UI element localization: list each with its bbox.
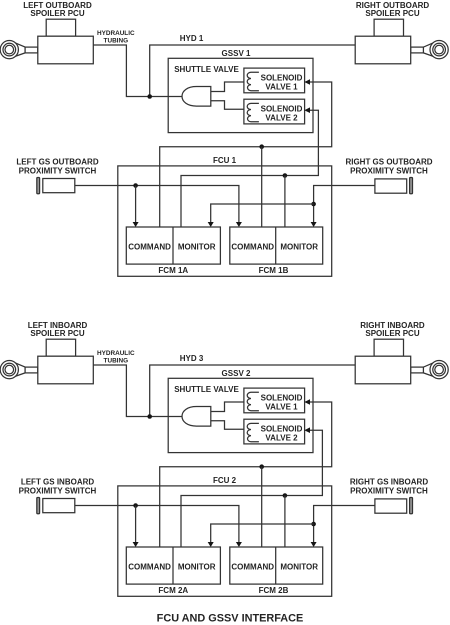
svg-text:VALVE 2: VALVE 2 <box>265 434 298 443</box>
arrow into FCM 2B monitor <box>311 542 317 547</box>
FCM 2A box <box>126 547 220 584</box>
PCU body <box>355 356 411 384</box>
arrow into solenoid valve 2 <box>304 107 310 113</box>
wire: HYD 1 supply line to right PCU with drop to shuttle valve <box>150 45 356 97</box>
wire: junction down to FCM 1B command <box>261 147 263 227</box>
node: solenoid 2 net junction <box>283 173 288 178</box>
node: junction dot hydraulic tubing / HYD 3 <box>147 414 152 419</box>
svg-text:SOLENOID: SOLENOID <box>261 74 303 83</box>
PCU mount block <box>46 19 75 36</box>
arrow into FCM 2A monitor <box>208 542 214 547</box>
node: left prox net junction <box>133 183 138 188</box>
left GS inboard proximity switch body <box>43 499 75 513</box>
svg-text:VALVE 2: VALVE 2 <box>265 114 298 123</box>
wire: junction down to FCM 1B monitor <box>284 176 286 228</box>
arrow into FCM 1B monitor <box>311 222 317 227</box>
rod-end eye outer <box>0 361 18 379</box>
right inboard PCU actuator <box>355 339 448 384</box>
svg-text:PROXIMITY SWITCH: PROXIMITY SWITCH <box>350 166 428 175</box>
arrow into solenoid valve 2 (GSSV 2) <box>304 427 310 433</box>
svg-text:MONITOR: MONITOR <box>178 242 216 251</box>
svg-text:GSSV 1: GSSV 1 <box>222 49 251 58</box>
wire: HYD 3 supply line to right inboard PCU with drop to shuttle valve <box>150 365 356 417</box>
rod-end bearing ring <box>433 363 446 376</box>
node: solenoid 1 net junction <box>259 144 264 149</box>
arrow into FCM 1B command <box>236 222 242 227</box>
wire: hydraulic tubing from left inboard PCU <box>93 365 182 417</box>
svg-text:FCM 2A: FCM 2A <box>158 586 188 595</box>
rod-end eye outer <box>0 41 18 59</box>
left GS outboard proximity switch target <box>37 178 40 194</box>
svg-text:COMMAND: COMMAND <box>231 242 274 251</box>
svg-text:MONITOR: MONITOR <box>178 562 216 571</box>
right outboard PCU actuator <box>355 19 448 64</box>
svg-text:SPOILER PCU: SPOILER PCU <box>30 9 84 18</box>
solenoid valve 1 box <box>244 68 305 93</box>
solenoid valve 1 box (GSSV 2) <box>244 388 305 413</box>
svg-text:SHUTTLE VALVE: SHUTTLE VALVE <box>174 385 239 394</box>
coil symbol solenoid valve 2 <box>247 103 259 121</box>
shuttle valve symbol <box>182 87 211 107</box>
svg-text:VALVE 1: VALVE 1 <box>265 83 298 92</box>
wire: hydraulic tubing from left PCU <box>93 45 182 97</box>
svg-text:SOLENOID: SOLENOID <box>261 394 303 403</box>
wire: shuttle valve output to solenoid valve 1 (GSSV 2) <box>211 402 244 412</box>
coil symbol solenoid valve 2 (GSSV 2) <box>247 423 259 441</box>
node: solenoid 2 net junction (FCU 2) <box>283 493 288 498</box>
svg-text:SOLENOID: SOLENOID <box>261 105 303 114</box>
GSSV 1 enclosure box <box>168 58 313 132</box>
PCU body <box>38 36 94 64</box>
svg-text:SPOILER PCU: SPOILER PCU <box>365 329 419 338</box>
piston rod <box>25 367 38 373</box>
FCU 1 enclosure box <box>118 166 332 276</box>
shuttle valve symbol (GSSV 2) <box>182 407 211 427</box>
wire: junction across to FCM 1A monitor <box>211 204 314 222</box>
PCU mount block <box>46 339 75 356</box>
FCM 1A channel divider <box>172 227 174 264</box>
svg-text:SPOILER PCU: SPOILER PCU <box>365 9 419 18</box>
wire: shuttle valve output to solenoid valve 1 <box>211 82 244 92</box>
svg-text:COMMAND: COMMAND <box>128 242 171 251</box>
PCU body <box>38 356 94 384</box>
svg-text:FCU AND GSSV INTERFACE: FCU AND GSSV INTERFACE <box>157 613 304 625</box>
svg-text:MONITOR: MONITOR <box>280 562 318 571</box>
svg-text:HYD 3: HYD 3 <box>180 354 204 363</box>
svg-text:VALVE 1: VALVE 1 <box>265 403 298 412</box>
solenoid valve 2 box (GSSV 2) <box>244 419 305 444</box>
svg-text:HYDRAULIC: HYDRAULIC <box>97 30 135 37</box>
svg-text:FCU 1: FCU 1 <box>213 156 237 165</box>
node: left prox net junction (FCU 2) <box>133 503 138 508</box>
FCM 2A channel divider <box>172 547 174 584</box>
FCM 2B channel divider <box>275 547 277 584</box>
svg-text:TUBING: TUBING <box>104 37 129 44</box>
arrow into FCM 1A command <box>133 222 139 227</box>
left outboard PCU actuator <box>0 19 93 64</box>
coil symbol solenoid valve 1 (GSSV 2) <box>247 392 259 410</box>
PCU mount block <box>374 19 403 36</box>
rod-end eye outer <box>430 41 448 59</box>
piston rod <box>411 47 424 53</box>
GSSV 2 enclosure box <box>168 378 313 452</box>
svg-text:FCM 1B: FCM 1B <box>259 266 289 275</box>
svg-text:SPOILER PCU: SPOILER PCU <box>30 329 84 338</box>
right GS outboard proximity switch target <box>410 178 413 194</box>
svg-text:COMMAND: COMMAND <box>128 562 171 571</box>
svg-text:COMMAND: COMMAND <box>231 562 274 571</box>
piston rod <box>411 367 424 373</box>
svg-text:SOLENOID: SOLENOID <box>261 425 303 434</box>
rod-end bearing ring <box>3 363 16 376</box>
wire: right inboard proximity switch to FCM monitors <box>314 506 375 543</box>
PCU body <box>355 36 411 64</box>
right GS inboard proximity switch target <box>410 498 413 514</box>
FCU 2 enclosure box <box>118 486 332 596</box>
rod-end bearing ring <box>3 43 16 56</box>
right GS outboard proximity switch body <box>375 179 407 193</box>
svg-text:HYD 1: HYD 1 <box>180 34 204 43</box>
node: right prox net junction (FCU 2) <box>311 522 316 527</box>
svg-text:FCM 2B: FCM 2B <box>259 586 289 595</box>
wire: junction down to FCM 1A command <box>135 186 137 223</box>
arrow into solenoid valve 1 <box>304 79 310 85</box>
node: solenoid 1 net junction (FCU 2) <box>259 464 264 469</box>
arrow into FCM 2B command <box>236 542 242 547</box>
wire: right proximity switch to FCM monitors <box>314 186 375 223</box>
FCM 1B box <box>230 227 323 264</box>
rod-end neck <box>423 43 432 56</box>
wire: junction down to FCM 2B command <box>261 467 263 547</box>
svg-text:PROXIMITY SWITCH: PROXIMITY SWITCH <box>350 486 428 495</box>
PCU mount block <box>374 339 403 356</box>
node: junction dot hydraulic tubing / HYD 1 <box>147 94 152 99</box>
arrow into FCM 1A monitor <box>208 222 214 227</box>
wire: shuttle valve output to solenoid valve 2 (GSSV 2) <box>211 421 244 430</box>
FCM 1B channel divider <box>275 227 277 264</box>
wire: junction across to FCM 2A monitor <box>211 524 314 542</box>
FCM 2B box <box>230 547 323 584</box>
arrow into FCM 2A command <box>133 542 139 547</box>
svg-text:MONITOR: MONITOR <box>280 242 318 251</box>
svg-text:PROXIMITY SWITCH: PROXIMITY SWITCH <box>19 166 97 175</box>
wire: junction down to FCM 2A command <box>135 506 137 543</box>
wire: left inboard proximity switch to FCM commands <box>75 506 239 543</box>
piston rod <box>25 47 38 53</box>
rod-end eye outer <box>430 361 448 379</box>
rod-end neck <box>16 43 25 56</box>
FCM 1A box <box>126 227 220 264</box>
coil symbol solenoid valve 1 <box>247 72 259 90</box>
wire: left proximity switch to FCM commands <box>75 186 239 223</box>
rod-end neck <box>16 363 25 376</box>
svg-text:FCU 2: FCU 2 <box>213 476 237 485</box>
left GS outboard proximity switch body <box>43 179 75 193</box>
wire: solenoid 2 drive net from MONITOR channels (FCU 2) <box>181 430 322 547</box>
rod-end bearing ring <box>433 43 446 56</box>
left inboard PCU actuator <box>0 339 93 384</box>
svg-text:TUBING: TUBING <box>104 357 129 364</box>
wire: solenoid 2 drive net from MONITOR channels <box>181 110 318 227</box>
solenoid valve 2 box <box>244 99 305 124</box>
svg-text:FCM 1A: FCM 1A <box>158 266 188 275</box>
arrow into solenoid valve 1 (GSSV 2) <box>304 399 310 405</box>
wire: junction down to FCM 2B monitor <box>284 496 286 548</box>
wire: solenoid 1 drive net from COMMAND channels <box>160 82 332 227</box>
svg-text:SHUTTLE VALVE: SHUTTLE VALVE <box>174 65 239 74</box>
left GS inboard proximity switch target <box>37 498 40 514</box>
node: right prox net junction <box>311 202 316 207</box>
svg-text:PROXIMITY SWITCH: PROXIMITY SWITCH <box>19 486 97 495</box>
wire: solenoid 1 drive net from COMMAND channels (FCU 2) <box>160 402 332 547</box>
right GS inboard proximity switch body <box>375 499 407 513</box>
svg-text:HYDRAULIC: HYDRAULIC <box>97 350 135 357</box>
svg-text:GSSV 2: GSSV 2 <box>222 369 251 378</box>
rod-end neck <box>423 363 432 376</box>
wire: shuttle valve output to solenoid valve 2 <box>211 101 244 110</box>
